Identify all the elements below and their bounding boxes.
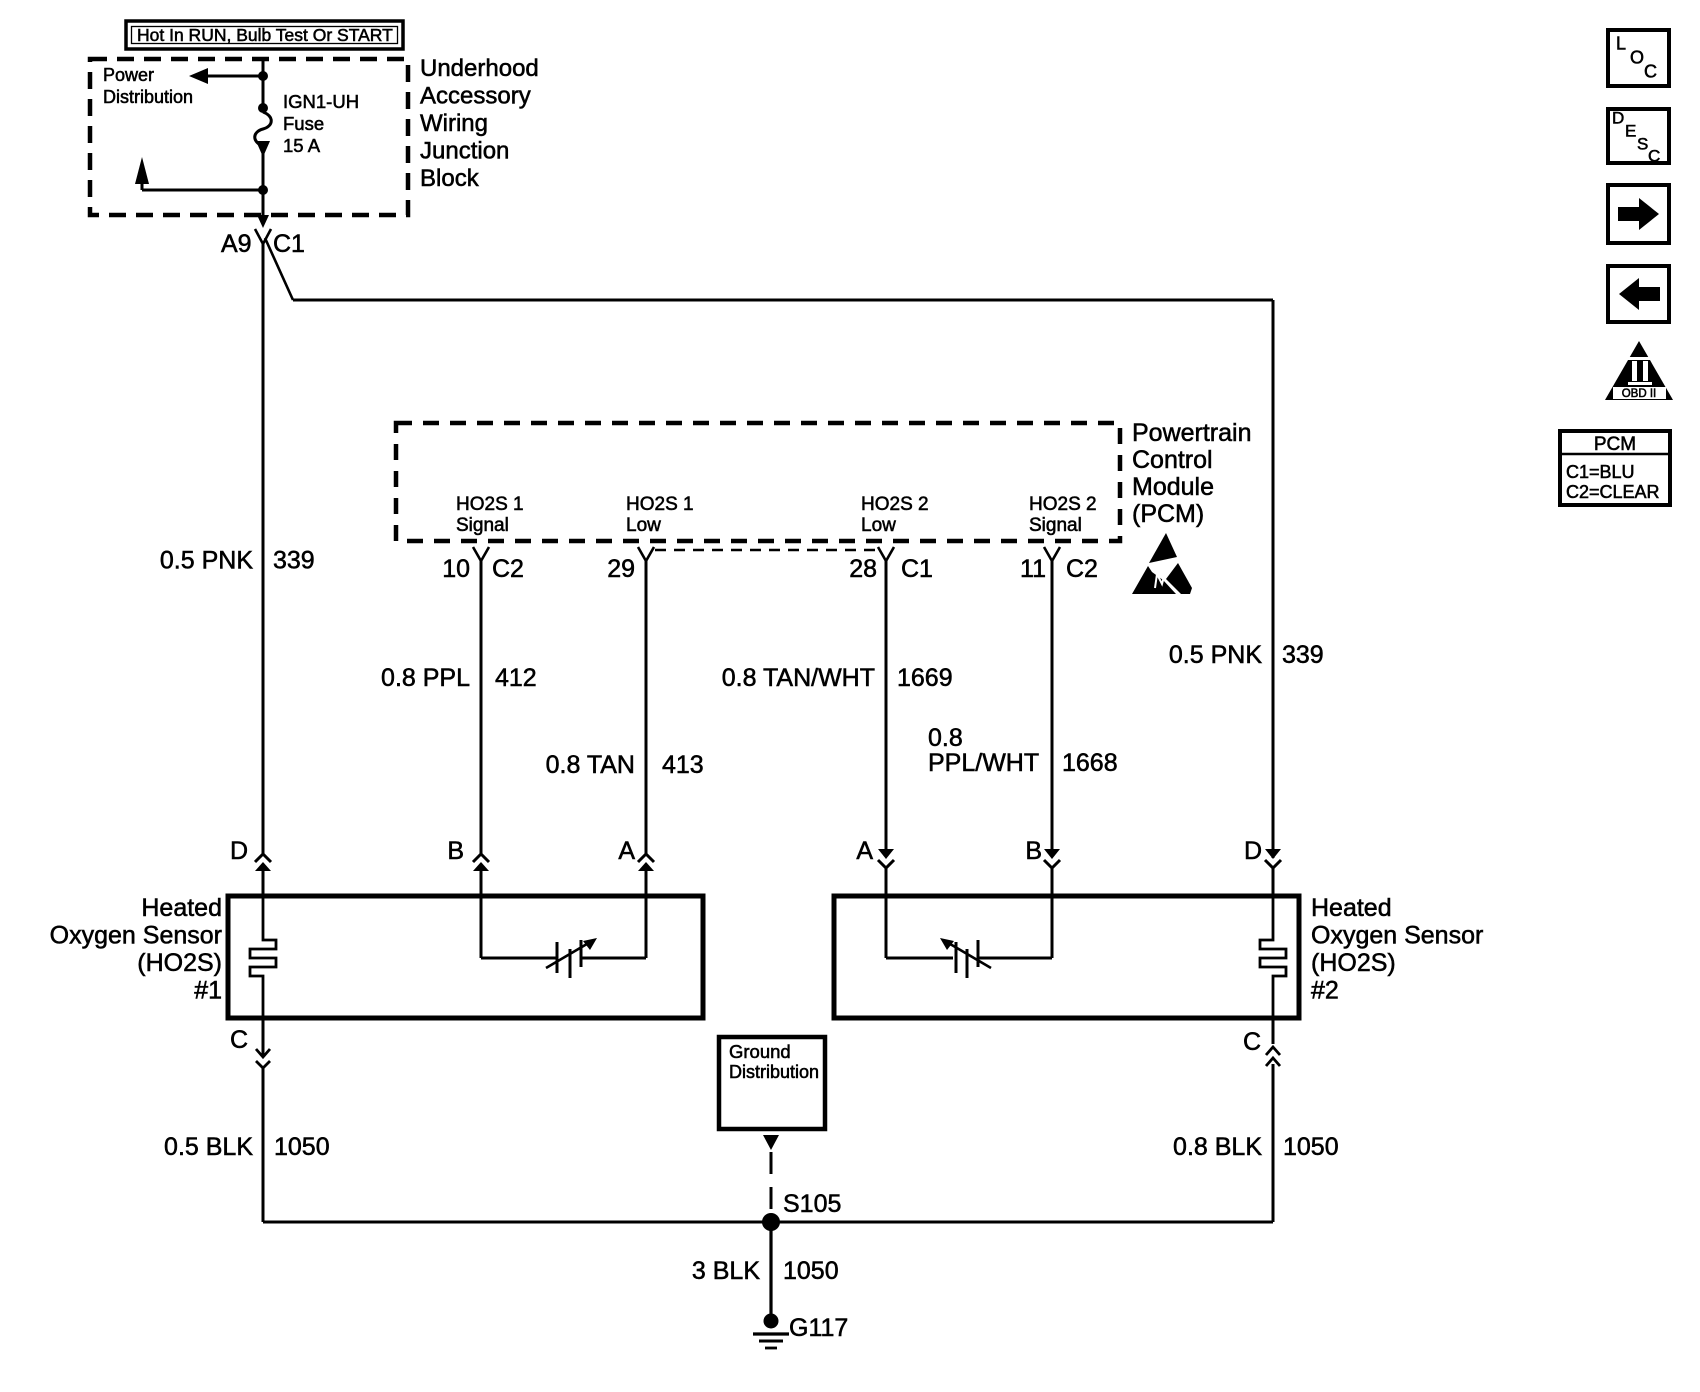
label: 0.8 PPL/WHT 1668 — [928, 724, 1118, 777]
label: Powertrain Control Module (PCM) — [1132, 419, 1252, 528]
svg-text:Hot In RUN, Bulb Test Or START: Hot In RUN, Bulb Test Or START — [137, 25, 393, 45]
svg-text:339: 339 — [273, 547, 315, 575]
heater element of HO2S #2 — [886, 896, 1052, 978]
svg-text:Ground: Ground — [729, 1041, 791, 1062]
svg-text:OBD II: OBD II — [1622, 388, 1657, 400]
pin C of HO2S#2 (up chevrons) — [1243, 1020, 1280, 1222]
pin B of HO2S#1 (chevron + up arrow) — [447, 837, 489, 896]
pin 29 connector (Y) — [607, 547, 654, 583]
svg-text:Power: Power — [103, 65, 154, 85]
svg-text:0.8 BLK: 0.8 BLK — [1173, 1133, 1262, 1161]
svg-text:B: B — [1025, 837, 1042, 865]
wire: branch to Power Distribution with left arrow — [189, 68, 263, 84]
heater element of HO2S #1 — [481, 896, 646, 978]
wire: 0.8 PPL 412 (pin 10 to HO2S#1 pin B) — [480, 561, 483, 854]
svg-text:IGN1-UH: IGN1-UH — [283, 91, 359, 112]
dashed connector line between pin 29 and pin 28 — [655, 549, 878, 551]
pin C of HO2S#1 (down arrow + chevron) — [230, 1018, 270, 1222]
icon: right arrow button — [1608, 185, 1669, 243]
label: 0.5 PNK 339 (left) — [160, 547, 315, 575]
svg-text:C: C — [230, 1026, 248, 1054]
Underhood Accessory Wiring Junction Block dashed box — [90, 59, 408, 215]
svg-text:339: 339 — [1282, 641, 1324, 669]
label: 0.5 BLK 1050 (left) — [164, 1133, 330, 1161]
svg-text:C2: C2 — [1066, 555, 1098, 583]
label: Heated Oxygen Sensor (HO2S) #2 — [1311, 894, 1483, 1005]
svg-text:A: A — [856, 837, 873, 865]
label: Heated Oxygen Sensor (HO2S) #1 — [50, 894, 222, 1005]
svg-text:C1: C1 — [901, 555, 933, 583]
wire: bottom ground bus — [263, 1221, 1273, 1224]
svg-text:Block: Block — [420, 165, 480, 192]
svg-text:Low: Low — [626, 515, 661, 536]
svg-text:Low: Low — [861, 515, 896, 536]
svg-text:0.8 PPL: 0.8 PPL — [381, 664, 470, 692]
svg-text:HO2S 1: HO2S 1 — [456, 494, 524, 515]
svg-text:PPL/WHT: PPL/WHT — [928, 749, 1039, 777]
wire: diagonal branch from A9/C1 to right feed — [265, 238, 293, 300]
svg-text:C: C — [1648, 147, 1660, 166]
svg-text:412: 412 — [495, 664, 537, 692]
pin A of HO2S#2 (down arrow + chevron) — [856, 837, 894, 896]
svg-text:C1=BLU: C1=BLU — [1566, 462, 1635, 482]
svg-text:HO2S 1: HO2S 1 — [626, 494, 694, 515]
label: Power Distribution — [103, 65, 193, 107]
svg-text:3 BLK: 3 BLK — [692, 1257, 760, 1285]
header label box: Hot In RUN, Bulb Test Or START — [126, 21, 403, 49]
icon: DESC button — [1608, 109, 1669, 166]
svg-text:0.8 TAN/WHT: 0.8 TAN/WHT — [722, 664, 875, 692]
pin A of HO2S#1 (chevron + up arrow) — [618, 837, 654, 896]
icon: left arrow button — [1608, 266, 1669, 322]
wire: feed from box top to fuse — [262, 59, 265, 107]
svg-text:Wiring: Wiring — [420, 110, 488, 137]
svg-text:Signal: Signal — [456, 515, 509, 536]
svg-text:Oxygen Sensor: Oxygen Sensor — [1311, 922, 1483, 950]
svg-text:O: O — [1630, 48, 1644, 68]
pin 10 C2 connector (Y) — [442, 547, 524, 583]
svg-text:Distribution: Distribution — [729, 1062, 819, 1082]
sensor element of HO2S #1 — [250, 896, 276, 1018]
svg-text:Control: Control — [1132, 446, 1213, 474]
svg-text:G117: G117 — [789, 1314, 848, 1342]
svg-text:(HO2S): (HO2S) — [137, 949, 222, 977]
label: HO2S 2 Low (pin 28) — [861, 494, 929, 536]
wire: 3 BLK 1050 to ground — [769, 1222, 772, 1315]
svg-text:C1: C1 — [273, 230, 305, 258]
label: HO2S 1 Low (pin 29) — [626, 494, 694, 536]
svg-text:0.5 PNK: 0.5 PNK — [160, 547, 253, 575]
svg-text:PCM: PCM — [1594, 434, 1636, 455]
PCM dashed box — [396, 423, 1120, 541]
svg-text:1050: 1050 — [1283, 1133, 1339, 1161]
wire: top horizontal run to right side — [293, 299, 1273, 302]
svg-text:Oxygen Sensor: Oxygen Sensor — [50, 922, 222, 950]
svg-text:(HO2S): (HO2S) — [1311, 949, 1396, 977]
svg-text:Underhood: Underhood — [420, 55, 539, 82]
connector A9 / C1 (Y symbol) — [221, 229, 305, 258]
pin 11 C2 connector (Y) — [1020, 547, 1098, 583]
svg-text:D: D — [1244, 837, 1262, 865]
node: splice S105 junction dot — [762, 1213, 780, 1231]
wire: down through box edge with arrow — [257, 190, 269, 228]
svg-text:C: C — [1644, 62, 1657, 82]
svg-text:Junction: Junction — [420, 138, 509, 165]
label: 3 BLK 1050 — [692, 1257, 839, 1285]
svg-text:0.5 PNK: 0.5 PNK — [1169, 641, 1262, 669]
label: 0.8 TAN/WHT 1669 — [722, 664, 953, 692]
Ground Distribution box — [719, 1037, 825, 1129]
svg-text:10: 10 — [442, 555, 470, 583]
legend: PCM connector colors — [1560, 431, 1670, 505]
svg-text:D: D — [1612, 109, 1624, 128]
wire: 0.8 TAN/WHT 1669 (pin 28 to HO2S#2 pin A) — [885, 561, 888, 850]
wire: right feed 0.5 PNK 339 down to HO2S #2 pin D — [1272, 300, 1275, 858]
svg-text:1668: 1668 — [1062, 749, 1118, 777]
wire: left feed 0.5 PNK 339 down to HO2S #1 pin D — [262, 243, 265, 854]
svg-text:A9: A9 — [221, 230, 252, 258]
svg-text:Distribution: Distribution — [103, 87, 193, 107]
wire: dashed drop from Ground Distribution to S105 — [763, 1135, 779, 1218]
icon: OBD II triangle — [1605, 341, 1673, 400]
label: HO2S 1 Signal (pin 10) — [456, 494, 524, 536]
fuse IGN1-UH 15 A — [255, 103, 272, 190]
ESD sensitive device symbol — [1132, 533, 1192, 594]
svg-text:Heated: Heated — [1311, 894, 1392, 922]
label: IGN1-UH Fuse 15 A — [283, 91, 359, 156]
pin D of HO2S#1 (chevron + up arrow) — [230, 837, 271, 896]
node: junction dot at bottom feed — [258, 185, 268, 195]
svg-text:L: L — [1616, 34, 1626, 54]
svg-text:Signal: Signal — [1029, 515, 1082, 536]
HO2S #2 box — [834, 896, 1299, 1018]
HO2S #1 box — [228, 896, 703, 1018]
label: HO2S 2 Signal (pin 11) — [1029, 494, 1097, 536]
svg-text:1050: 1050 — [783, 1257, 839, 1285]
svg-text:Fuse: Fuse — [283, 113, 324, 134]
svg-text:Powertrain: Powertrain — [1132, 419, 1252, 447]
label: 0.8 PPL 412 — [381, 664, 537, 692]
label: 0.8 TAN 413 — [546, 751, 704, 779]
svg-text:1669: 1669 — [897, 664, 953, 692]
svg-text:C2=CLEAR: C2=CLEAR — [1566, 482, 1660, 502]
svg-text:C: C — [1243, 1028, 1261, 1056]
svg-text:15 A: 15 A — [283, 135, 321, 156]
ground G117 symbol — [753, 1314, 789, 1349]
svg-text:29: 29 — [607, 555, 635, 583]
label: Underhood Accessory Wiring Junction Block — [420, 55, 539, 192]
wire: 0.8 PPL/WHT 1668 (pin 11 to HO2S#2 pin B) — [1051, 561, 1054, 850]
svg-text:Heated: Heated — [141, 894, 222, 922]
pin 28 C1 connector (Y) — [849, 547, 933, 583]
svg-text:E: E — [1625, 122, 1636, 141]
svg-text:(PCM): (PCM) — [1132, 500, 1204, 528]
svg-text:0.8 TAN: 0.8 TAN — [546, 751, 635, 779]
svg-text:HO2S 2: HO2S 2 — [1029, 494, 1097, 515]
node: junction dot at fuse feed — [258, 71, 268, 81]
svg-text:Module: Module — [1132, 473, 1214, 501]
pin D of HO2S#2 (down arrow + chevron) — [1244, 837, 1281, 896]
svg-text:A: A — [618, 837, 635, 865]
svg-text:S105: S105 — [783, 1190, 841, 1218]
svg-text:Accessory: Accessory — [420, 83, 531, 110]
svg-text:D: D — [230, 837, 248, 865]
svg-text:0.8: 0.8 — [928, 724, 963, 752]
wire: branch to second feed with up arrow — [135, 157, 263, 190]
label: 0.5 PNK 339 (right) — [1169, 641, 1324, 669]
svg-text:413: 413 — [662, 751, 704, 779]
icon: LOC button — [1608, 30, 1669, 86]
svg-text:B: B — [447, 837, 464, 865]
svg-text:28: 28 — [849, 555, 877, 583]
label: 0.8 BLK 1050 (right) — [1173, 1133, 1339, 1161]
wire: 0.8 TAN 413 (pin 29 to HO2S#1 pin A) — [645, 561, 648, 854]
svg-text:0.5 BLK: 0.5 BLK — [164, 1133, 253, 1161]
svg-text:#2: #2 — [1311, 977, 1339, 1005]
svg-text:11: 11 — [1020, 555, 1046, 583]
pin B of HO2S#2 (down arrow + chevron) — [1025, 837, 1060, 896]
sensor element of HO2S #2 — [1260, 896, 1286, 1020]
svg-text:HO2S 2: HO2S 2 — [861, 494, 929, 515]
svg-text:#1: #1 — [194, 977, 222, 1005]
svg-text:1050: 1050 — [274, 1133, 330, 1161]
svg-text:S: S — [1637, 135, 1648, 154]
svg-text:C2: C2 — [492, 555, 524, 583]
